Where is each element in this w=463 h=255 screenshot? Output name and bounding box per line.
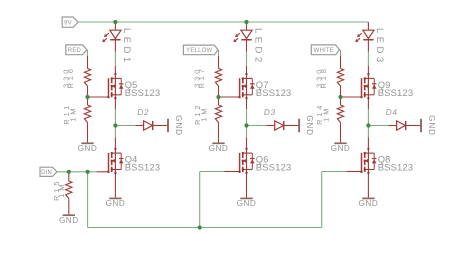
svg-text:RED: RED	[68, 48, 82, 54]
ground under R14	[331, 142, 351, 153]
junction node gate R	[85, 95, 89, 99]
svg-text:GND: GND	[59, 216, 79, 225]
ground right of D2	[167, 115, 183, 136]
wire LED cathode to mosfet drain	[367, 52, 369, 75]
svg-text:GND: GND	[359, 199, 379, 208]
resistor R15 1M	[52, 179, 72, 201]
svg-text:R16: R16	[66, 66, 75, 88]
svg-text:GND: GND	[305, 115, 314, 136]
wire diode node to lower mosfet drain	[367, 126, 369, 149]
wire lower mosfet source to ground	[114, 173, 116, 198]
wire resistor junction column	[87, 86, 89, 105]
transistor Q9	[361, 73, 414, 99]
svg-text:GND: GND	[78, 144, 98, 153]
ground under Q6	[237, 198, 257, 209]
svg-text:GND: GND	[331, 144, 351, 153]
svg-text:R18: R18	[319, 66, 328, 88]
wire gate upper	[342, 96, 362, 98]
net label DIN	[40, 167, 57, 176]
svg-text:WHITE: WHITE	[314, 48, 334, 54]
svg-text:LED3: LED3	[374, 28, 385, 66]
svg-text:BSS123: BSS123	[378, 87, 414, 98]
svg-text:BSS123: BSS123	[378, 162, 414, 173]
resistor R17 330	[193, 66, 222, 88]
wire 9V top rail	[78, 22, 368, 26]
svg-text:DIN: DIN	[41, 170, 52, 176]
svg-text:LED2: LED2	[252, 28, 263, 66]
svg-text:BSS123: BSS123	[256, 162, 292, 173]
net label RED	[66, 45, 88, 55]
transistor Q5	[108, 73, 161, 99]
wire gate lower Q4	[97, 171, 109, 173]
wire mosfet source to diode node	[367, 98, 369, 125]
wire flag to resistor	[87, 50, 89, 69]
diode D4	[385, 107, 420, 130]
transistor Q6	[239, 148, 292, 174]
wire DIN riser ch2	[200, 172, 225, 228]
transistor Q8	[361, 148, 414, 174]
wire LED cathode to mosfet drain	[114, 52, 116, 75]
wire diode anode	[117, 125, 135, 127]
junction node DIN-R15	[67, 170, 71, 174]
svg-text:BSS123: BSS123	[256, 87, 292, 98]
svg-text:GND: GND	[209, 144, 229, 153]
ground right of D3	[298, 115, 314, 136]
diode D2	[135, 107, 167, 130]
svg-text:BSS123: BSS123	[125, 87, 161, 98]
svg-text:D3: D3	[263, 107, 277, 117]
net label YELLOW	[183, 45, 218, 55]
junction node 9V-LED2	[244, 20, 248, 24]
resistor R12 1M	[193, 103, 222, 125]
junction node 9V-LED1	[113, 20, 117, 24]
transistor Q7	[239, 73, 292, 99]
wire mosfet source to diode node	[246, 98, 248, 125]
junction node D3	[244, 123, 248, 127]
ground right of D4	[420, 115, 436, 136]
svg-text:D4: D4	[385, 107, 399, 117]
transistor Q4	[108, 148, 161, 174]
wire lower mosfet source to ground	[246, 173, 248, 198]
ground under R11	[78, 142, 98, 153]
wire R15 lead	[68, 172, 70, 215]
wire flag to resistor	[340, 50, 342, 69]
junction node DIN bus ch2	[198, 225, 202, 229]
svg-text:R17: R17	[197, 66, 206, 88]
svg-text:9V: 9V	[64, 20, 72, 26]
resistor R18 330	[315, 66, 344, 88]
LED LED2	[233, 22, 263, 65]
wire 1M resistor to ground	[218, 123, 220, 143]
wire gate upper	[220, 96, 240, 98]
wire gate upper	[89, 96, 109, 98]
wire diode node to lower mosfet drain	[246, 126, 248, 149]
wire gate lower Q8	[346, 171, 361, 173]
wire DIN horizontal	[57, 171, 97, 173]
svg-text:GND: GND	[237, 199, 257, 208]
junction node D2	[113, 123, 117, 127]
ground under Q8	[359, 198, 379, 209]
junction node gate W	[338, 95, 342, 99]
wire DIN riser ch3	[322, 172, 347, 228]
wire flag to resistor	[218, 50, 220, 69]
svg-text:1M: 1M	[68, 106, 77, 122]
junction node gate Y	[216, 95, 220, 99]
wire 1M resistor to ground	[87, 123, 89, 143]
net label WHITE	[311, 45, 340, 55]
diode D3	[263, 107, 298, 130]
wire mosfet source to diode node	[114, 98, 116, 125]
junction node D4	[366, 123, 370, 127]
wire diode anode	[370, 125, 388, 127]
wire bottom DIN bus	[88, 227, 322, 229]
svg-text:BSS123: BSS123	[125, 162, 161, 173]
wire LED cathode to mosfet drain	[246, 52, 248, 75]
resistor R16 330	[62, 66, 91, 88]
wire 1M resistor to ground	[340, 123, 342, 143]
wire DIN drop to bottom bus	[87, 172, 89, 228]
LED LED3	[355, 22, 385, 65]
resistor R11 1M	[62, 103, 91, 125]
wire resistor junction column	[218, 86, 220, 105]
supply flag 9V	[62, 17, 78, 27]
svg-text:GND: GND	[174, 115, 183, 136]
ground under R12	[209, 142, 229, 153]
svg-text:GND: GND	[427, 115, 436, 136]
LED LED1	[102, 22, 132, 65]
svg-text:1M: 1M	[57, 182, 66, 198]
svg-text:D2: D2	[137, 107, 151, 117]
junction node DIN-Q4	[86, 170, 90, 174]
ground under R15	[59, 214, 79, 225]
svg-text:LED1: LED1	[121, 28, 132, 66]
resistor R14 1M	[315, 103, 344, 125]
ground under Q4	[106, 198, 126, 209]
svg-text:1M: 1M	[321, 106, 330, 122]
svg-text:1M: 1M	[199, 106, 208, 122]
svg-text:YELLOW: YELLOW	[186, 48, 212, 54]
wire diode node to lower mosfet drain	[114, 126, 116, 149]
wire gate lower Q6	[225, 171, 240, 173]
svg-text:GND: GND	[106, 199, 126, 208]
wire diode anode	[249, 125, 267, 127]
wire lower mosfet source to ground	[367, 173, 369, 198]
wire resistor junction column	[340, 86, 342, 105]
